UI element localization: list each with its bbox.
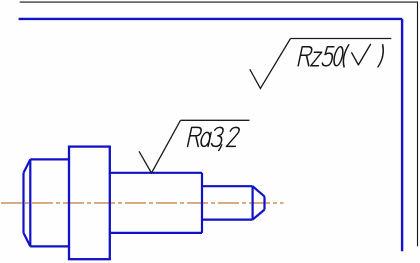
roughness symbol Rz50 check mark bbox=[250, 39, 291, 89]
sheet outer border top line bbox=[20, 1, 418, 3]
part: stub chamfer edge line bbox=[252, 186, 254, 219]
part: left plug chamfer edge line bbox=[29, 159, 31, 246]
part: shaft right step face bbox=[201, 173, 203, 233]
roughness symbol Ra3,2 check mark bbox=[139, 120, 181, 173]
part: main shaft bottom line bbox=[110, 232, 202, 234]
roughness value label Ra3,2 bbox=[187, 127, 240, 150]
part: stub top line bbox=[202, 185, 253, 187]
small check mark inside parentheses bbox=[352, 44, 371, 65]
part: left plug left face bbox=[22, 173, 24, 233]
centerline (axis, dash-dot orange) bbox=[1, 202, 284, 204]
part: stub right end face bbox=[263, 196, 265, 209]
part: left plug bottom line bbox=[30, 245, 69, 247]
part: stub bottom chamfer bbox=[253, 210, 265, 220]
drawing frame blue top line bbox=[19, 18, 403, 20]
part: left plug top line bbox=[30, 158, 69, 160]
roughness value label Rz50 with parentheses bbox=[298, 45, 385, 67]
part: flange rectangle bbox=[69, 147, 110, 260]
drawing frame blue right line bbox=[401, 19, 403, 251]
part: left plug top chamfer bbox=[24, 159, 31, 173]
sheet outer border right line bbox=[417, 2, 419, 246]
part: stub top chamfer bbox=[253, 186, 265, 196]
roughness symbol Ra3,2 top extension line bbox=[181, 119, 250, 121]
part: left plug bottom chamfer bbox=[24, 233, 31, 247]
roughness symbol Rz50 top extension line bbox=[291, 38, 392, 40]
part: stub bottom line bbox=[202, 219, 253, 221]
part: main shaft top line bbox=[110, 172, 202, 174]
